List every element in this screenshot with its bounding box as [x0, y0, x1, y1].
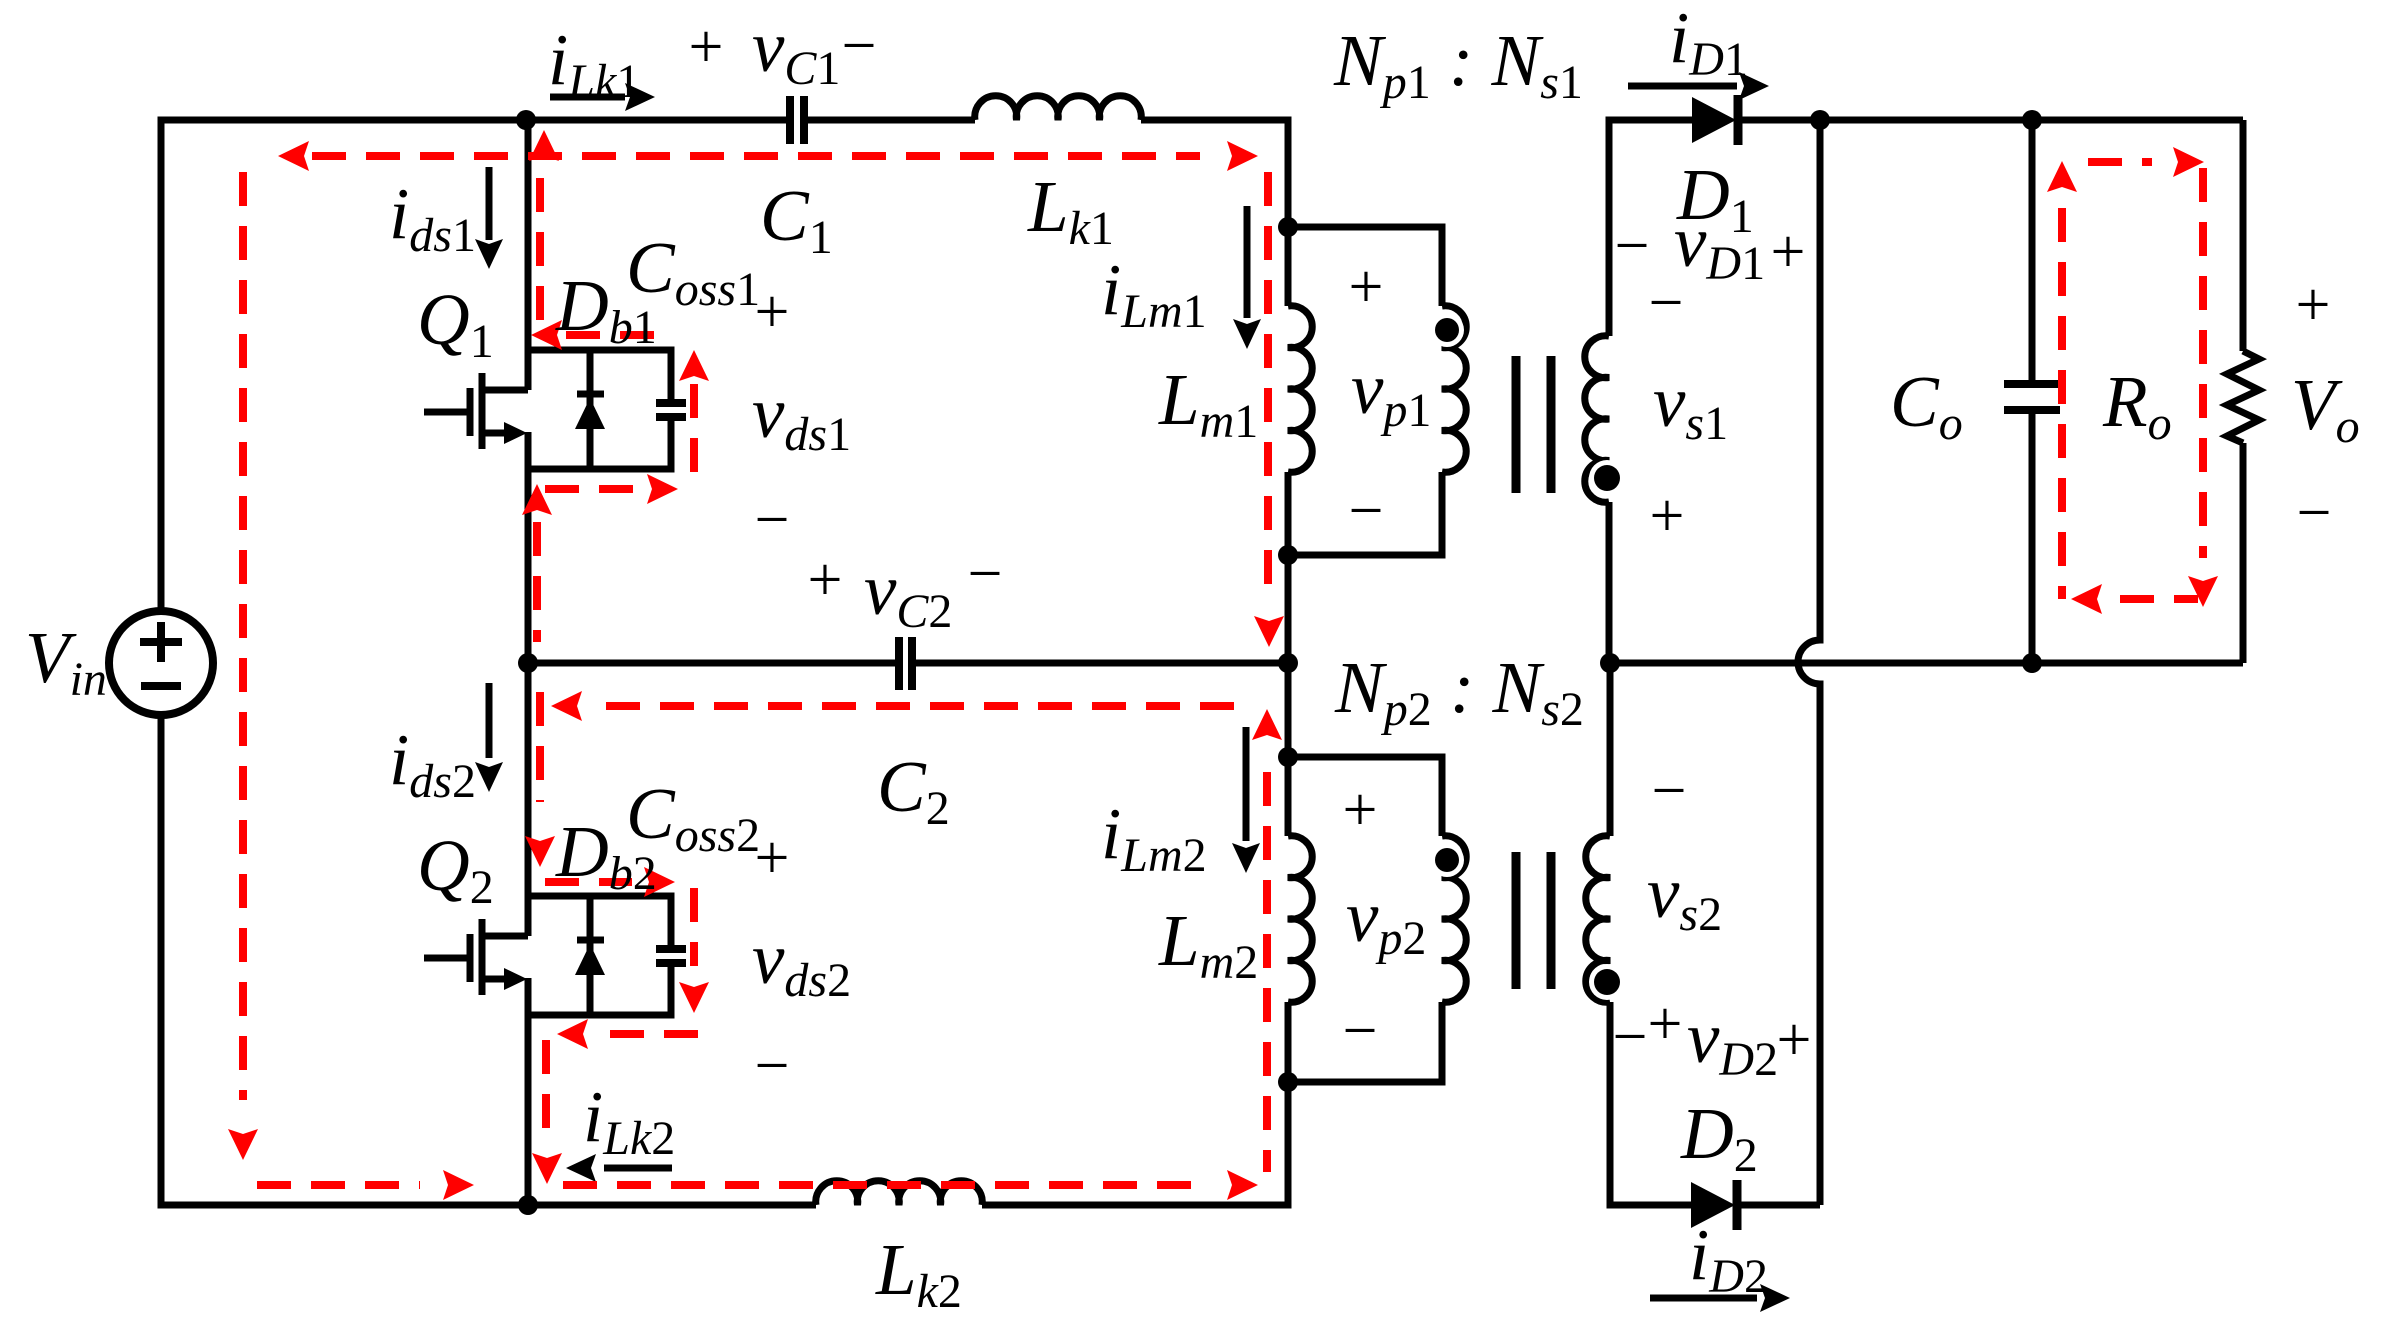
resistor Ro	[2227, 351, 2259, 443]
svg-text:vC1: vC1	[752, 6, 840, 95]
wire red mid rise x1267	[1263, 772, 1271, 1172]
arrowhead red left-down	[228, 1129, 258, 1160]
capacitor Coss1	[656, 403, 686, 417]
arrowhead red drain-up	[529, 130, 559, 161]
arrow iLm2	[1243, 727, 1250, 841]
svg-text:−: −	[1343, 997, 1378, 1065]
svg-text:vds2: vds2	[752, 918, 851, 1007]
svg-text:+: +	[1650, 482, 1685, 550]
inductor Lm2	[1288, 836, 1312, 1003]
capacitor Co	[2004, 384, 2060, 410]
svg-text:D2: D2	[1680, 1093, 1758, 1182]
svg-text:Ro: Ro	[2102, 361, 2172, 450]
wire secondary1 top leg	[1609, 120, 1692, 336]
svg-text:Vin: Vin	[25, 617, 107, 706]
polarity dot vp1	[1430, 313, 1464, 347]
wire red below Q2 descend	[542, 1040, 550, 1132]
svg-text:+: +	[1349, 253, 1384, 321]
wire red loop left vertical	[239, 172, 247, 1100]
inductor Lk2	[816, 1181, 982, 1205]
wire red output loop right	[2199, 168, 2207, 558]
arrowhead red top-left	[278, 141, 309, 171]
svg-text:−: −	[842, 12, 877, 80]
svg-text:ids2: ids2	[389, 719, 476, 808]
wire red Q2 box top	[545, 878, 632, 886]
arrow iD1	[1628, 83, 1737, 90]
svg-text:ids1: ids1	[389, 173, 476, 262]
wire red right descend x1268	[1264, 172, 1272, 592]
svg-text:+: +	[2296, 271, 2331, 339]
svg-text:−: −	[2297, 479, 2332, 547]
wire red output loop bottom	[2120, 595, 2198, 603]
svg-text:−: −	[1349, 477, 1384, 545]
svg-text:C2: C2	[877, 746, 950, 835]
node at mid left	[518, 653, 538, 673]
wire top bus	[161, 120, 790, 611]
wire Q2 source to bottom node	[525, 978, 532, 1205]
wire red Q1 box bottom	[545, 485, 634, 493]
svg-text:+: +	[1343, 776, 1378, 844]
node at Q1 drain top	[516, 110, 536, 130]
svg-text:−: −	[1649, 269, 1684, 337]
wire red drain descend below mid	[536, 692, 544, 802]
svg-text:−: −	[755, 486, 790, 554]
arrowhead red Q1 top-left	[531, 320, 562, 350]
arrow ids2	[486, 683, 493, 758]
capacitor C2	[899, 637, 912, 690]
inductor Lk1	[975, 96, 1142, 120]
node at Co top	[2022, 110, 2042, 130]
svg-text:vC2: vC2	[864, 549, 952, 638]
arrowhead red Q2 bottom-left	[557, 1019, 588, 1049]
winding vp2	[1442, 836, 1466, 1003]
wire secondary1 bottom leg	[1606, 502, 1613, 663]
node T1 bottom	[1278, 545, 1298, 565]
transistor Q1 snubber box	[528, 350, 671, 403]
wire Ro bottom	[2240, 443, 2247, 663]
svg-text:Q2: Q2	[417, 825, 494, 914]
svg-text:Coss1: Coss1	[626, 227, 760, 316]
svg-text:−: −	[1615, 212, 1650, 280]
svg-text:Np2 : Ns2: Np2 : Ns2	[1334, 647, 1584, 736]
capacitor C1	[790, 96, 804, 144]
svg-text:Np1 : Ns1: Np1 : Ns1	[1333, 20, 1583, 109]
svg-text:+: +	[808, 546, 843, 614]
arrowhead red Q1 bottom-right	[647, 474, 678, 504]
wire secondary2 bottom leg	[1610, 1002, 1691, 1205]
wire red Q2 box right	[690, 888, 698, 966]
svg-text:vD2: vD2	[1687, 997, 1778, 1086]
transistor Q2 mosfet symbol	[424, 955, 467, 962]
wire middle bus right of C2	[912, 660, 1288, 667]
wire main vertical Lm2 bottom to bottom bus	[982, 1002, 1288, 1205]
node at D1 cathode	[1810, 110, 1830, 130]
arrow iLk1	[550, 94, 625, 101]
node bottom left	[518, 1195, 538, 1215]
source Vin plus sign	[140, 622, 182, 662]
wire red output loop top	[2088, 158, 2152, 166]
svg-text:iD1: iD1	[1669, 0, 1748, 86]
arrowhead red bottom-right-right	[1227, 1170, 1258, 1200]
polarity dot vs1	[1589, 460, 1625, 496]
inductor Lm1	[1288, 306, 1312, 473]
svg-text:vds1: vds1	[752, 372, 851, 461]
polarity dot vp2	[1430, 843, 1464, 877]
svg-text:vp1: vp1	[1351, 348, 1431, 437]
arrow ids1	[486, 167, 493, 240]
source Vin minus sign	[141, 682, 181, 690]
transistor Q1 mosfet symbol	[424, 409, 467, 416]
arrowhead red top-right	[1227, 141, 1258, 171]
wire red output loop left	[2058, 208, 2066, 599]
svg-text:vs1: vs1	[1653, 361, 1728, 450]
wire red bottom left horizontal	[257, 1181, 420, 1189]
wire mid node to Q2 drain	[525, 663, 532, 936]
source Vin circle	[109, 611, 213, 715]
node at mid C2 right	[1278, 653, 1298, 673]
svg-text:−: −	[1613, 1003, 1648, 1071]
arrowhead red output-top-right	[2173, 147, 2204, 177]
svg-text:Q1: Q1	[417, 279, 494, 368]
svg-text:Vo: Vo	[2291, 364, 2360, 453]
svg-text:iLm1: iLm1	[1101, 249, 1207, 338]
svg-text:Lk1: Lk1	[1027, 166, 1114, 255]
wire Q1 source to mid node	[525, 432, 532, 663]
svg-text:+: +	[689, 13, 724, 81]
arrowhead red below-Q1-up	[522, 484, 552, 515]
wire output right side Ro top	[2240, 120, 2247, 351]
diode Db1	[587, 350, 594, 469]
wire D1 cathode to top right corner	[1737, 117, 2243, 124]
wire top from Lk1 to corner and down	[1141, 120, 1288, 306]
arrowhead red below-Q2-down	[532, 1153, 562, 1184]
wire red loop top horizontal	[312, 152, 1200, 160]
wire red bottom right horizontal	[563, 1181, 1203, 1189]
wire red Q1 box right	[690, 384, 698, 472]
svg-text:C1: C1	[760, 175, 833, 264]
svg-text:Lk2: Lk2	[875, 1229, 962, 1318]
wire main vertical Lm1 bottom to Lm2 top	[1285, 472, 1292, 836]
transformer T2 core	[1516, 852, 1551, 989]
svg-text:Lm1: Lm1	[1158, 359, 1258, 448]
transformer T1 primary loop	[1288, 227, 1442, 306]
capacitor Coss2	[656, 949, 686, 963]
transformer T2 primary loop	[1288, 757, 1442, 836]
svg-text:+: +	[755, 278, 790, 346]
wire output bottom bus	[1610, 660, 2243, 667]
wire Q branch upper	[526, 120, 528, 390]
arrow iLk2	[604, 1165, 672, 1172]
wire secondary2 top leg	[1607, 663, 1614, 836]
node at Co bottom	[2022, 653, 2042, 673]
transformer T1 core	[1516, 356, 1551, 493]
node T2 bottom	[1278, 1072, 1298, 1092]
svg-text:iLk2: iLk2	[583, 1076, 675, 1165]
svg-text:+: +	[1771, 218, 1806, 286]
wire middle bus left of C2	[528, 660, 899, 667]
arrowhead red mid-rise-up	[1252, 709, 1282, 740]
polarity dot vs2	[1589, 964, 1625, 1000]
svg-text:+: +	[1777, 1006, 1812, 1074]
svg-text:vp2: vp2	[1346, 876, 1426, 965]
arrowhead red right-descend-down	[1254, 616, 1284, 647]
arrowhead red output-left-up	[2047, 161, 2077, 192]
wire D2 cathode to riser	[1737, 1202, 1820, 1209]
wire red below Q1 rise	[533, 522, 541, 642]
svg-text:+: +	[755, 824, 790, 892]
transistor Q2 snubber box	[528, 896, 671, 949]
svg-text:−: −	[968, 540, 1003, 608]
arrow iLm1	[1244, 206, 1251, 318]
arrowhead red bottom-left-right	[443, 1170, 474, 1200]
wire red mid return horizontal	[606, 702, 1250, 710]
arrowhead red output-bottom-left	[2071, 584, 2102, 614]
arrowhead red Q2 top-right	[644, 867, 675, 897]
arrowhead red output-right-down	[2188, 576, 2218, 607]
node T1 top	[1278, 217, 1298, 237]
wire red drain rise upper	[536, 178, 544, 330]
svg-text:iLm2: iLm2	[1101, 793, 1207, 882]
wire riser x1820 with hop over output bus	[1798, 120, 1820, 1205]
diode Db2	[587, 896, 594, 1015]
arrowhead red Q2 right-down	[679, 982, 709, 1013]
arrowhead red mid-left	[551, 691, 582, 721]
winding vs1	[1585, 336, 1609, 503]
winding vs2	[1586, 836, 1610, 1003]
wire top from C1 to Lk1	[804, 117, 975, 124]
arrowhead red drain-down	[525, 836, 555, 867]
svg-text:iD2: iD2	[1689, 1214, 1768, 1303]
wire red Q1 box top	[566, 331, 660, 339]
svg-text:−: −	[755, 1032, 790, 1100]
arrow iD2	[1650, 1295, 1757, 1302]
svg-text:Co: Co	[1890, 361, 1963, 450]
svg-text:Coss2: Coss2	[626, 773, 760, 862]
svg-text:iLk1: iLk1	[548, 19, 640, 108]
wire Co bottom leg	[2029, 410, 2036, 663]
svg-text:vs2: vs2	[1647, 852, 1722, 941]
wire red Q2 box bottom	[610, 1030, 700, 1038]
svg-text:+: +	[1648, 990, 1683, 1058]
svg-text:−: −	[1652, 757, 1687, 825]
diode D2	[1691, 1182, 1735, 1228]
svg-text:Lm2: Lm2	[1158, 900, 1258, 989]
node T2 top	[1278, 747, 1298, 767]
wire Co top leg	[2029, 120, 2036, 384]
wire left bus lower	[161, 715, 816, 1205]
winding vp1	[1442, 306, 1466, 473]
arrowhead red Q1 right-up	[679, 350, 709, 381]
diode D1	[1692, 97, 1736, 143]
node at output bus left	[1600, 653, 1620, 673]
